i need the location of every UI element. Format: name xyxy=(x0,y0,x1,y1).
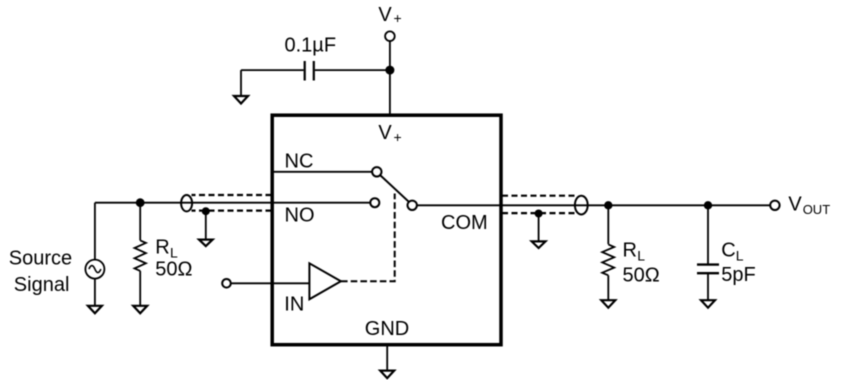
svg-text:COM: COM xyxy=(441,212,488,234)
svg-text:+: + xyxy=(394,129,402,145)
svg-text:5pF: 5pF xyxy=(721,264,755,286)
svg-text:IN: IN xyxy=(284,294,304,316)
svg-text:L: L xyxy=(637,247,645,263)
svg-text:R: R xyxy=(155,237,169,259)
svg-text:C: C xyxy=(721,240,735,262)
svg-text:V: V xyxy=(378,122,392,144)
svg-text:+: + xyxy=(394,10,402,26)
svg-text:V: V xyxy=(788,193,802,215)
svg-text:0.1µF: 0.1µF xyxy=(285,35,337,57)
svg-text:50Ω: 50Ω xyxy=(155,259,192,281)
svg-text:GND: GND xyxy=(365,318,409,340)
svg-text:Source: Source xyxy=(9,248,72,270)
svg-text:50Ω: 50Ω xyxy=(623,265,660,287)
svg-text:L: L xyxy=(736,247,744,263)
svg-text:NC: NC xyxy=(285,151,314,173)
svg-text:R: R xyxy=(623,240,637,262)
svg-text:Signal: Signal xyxy=(14,274,70,296)
svg-text:OUT: OUT xyxy=(803,202,831,217)
svg-text:NO: NO xyxy=(285,205,315,227)
svg-text:V: V xyxy=(378,4,392,26)
